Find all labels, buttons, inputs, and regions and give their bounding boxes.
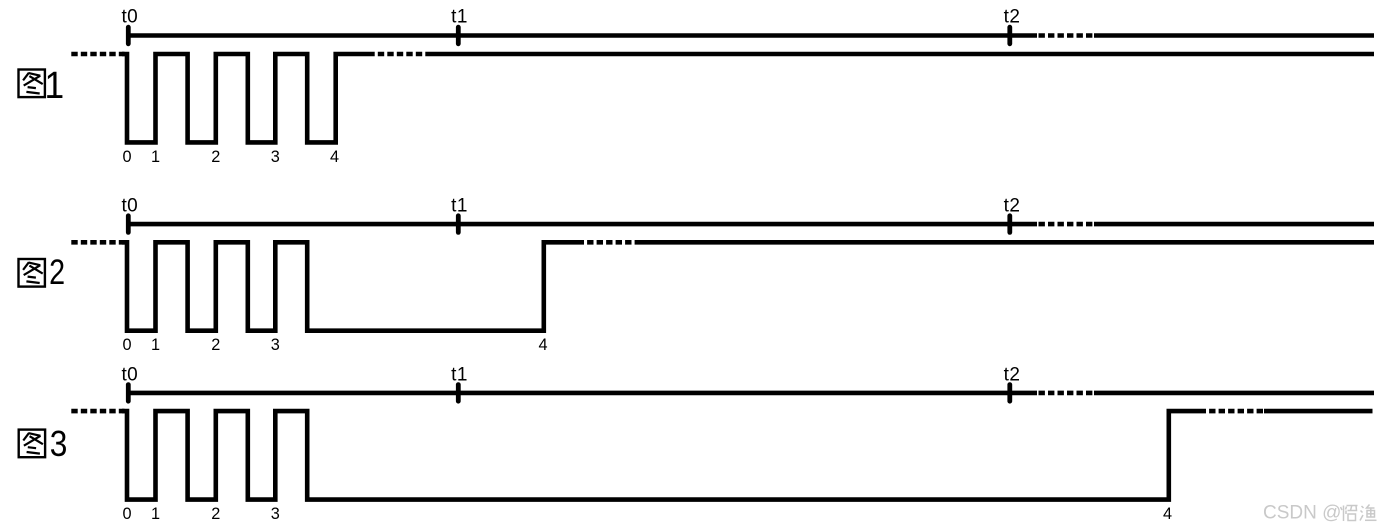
tick t1 row1	[456, 27, 461, 44]
svg-text:t0: t0	[121, 7, 138, 28]
svg-text:t1: t1	[451, 7, 468, 28]
svg-text:3: 3	[271, 336, 280, 354]
svg-text:3: 3	[271, 505, 280, 523]
svg-text:4: 4	[1163, 505, 1172, 523]
svg-text:3: 3	[271, 148, 280, 166]
svg-text:t2: t2	[1004, 365, 1021, 386]
timeline row1 solid left part	[128, 33, 1037, 38]
tick t2 row3	[1007, 385, 1012, 402]
svg-text:2: 2	[49, 252, 65, 291]
svg-text:t0: t0	[121, 196, 138, 217]
svg-text:2: 2	[211, 148, 220, 166]
svg-text:4: 4	[330, 148, 339, 166]
timeline row3 solid right part	[1094, 391, 1374, 396]
svg-text:0: 0	[122, 148, 131, 166]
svg-text:t2: t2	[1004, 196, 1021, 217]
svg-text:1: 1	[151, 336, 160, 354]
wave row1 pulse train	[122, 54, 375, 142]
svg-text:t1: t1	[451, 365, 468, 386]
watermark glyph 渔	[1360, 505, 1377, 521]
timeline row1 dashed part	[1039, 33, 1095, 38]
wave row3 dashed high segment	[1209, 409, 1264, 414]
wave row3 solid high to right edge	[1264, 409, 1373, 414]
wave row2 lead-in dashes	[71, 240, 124, 245]
svg-text:0: 0	[122, 505, 131, 523]
svg-text:4: 4	[538, 336, 547, 354]
watermark glyph 悟	[1341, 506, 1358, 522]
wave row1 solid high to right edge	[431, 52, 1374, 57]
svg-text:CSDN @: CSDN @	[1263, 503, 1341, 524]
wave row2 solid high to right edge	[640, 240, 1374, 245]
tick t0 row2	[126, 216, 131, 233]
timeline row1 solid right part	[1094, 33, 1374, 38]
tick t1 row2	[456, 216, 461, 233]
svg-text:t2: t2	[1004, 7, 1021, 28]
timeline row2 dashed part	[1039, 222, 1095, 227]
wave row1 dashed high segment	[378, 52, 431, 57]
svg-text:2: 2	[211, 336, 220, 354]
tick t2 row2	[1007, 216, 1012, 233]
svg-text:0: 0	[122, 336, 131, 354]
tick t0 row3	[126, 385, 131, 402]
label 图2	[19, 252, 66, 291]
label 图1	[19, 64, 65, 106]
wave row1 lead-in dashes	[71, 52, 124, 57]
wave row2 dashed high segment	[587, 240, 640, 245]
timeline row3 solid left part	[128, 391, 1037, 396]
label 图3	[19, 424, 68, 464]
svg-text:1: 1	[44, 64, 64, 106]
tick t2 row1	[1007, 27, 1012, 44]
svg-text:t1: t1	[451, 196, 468, 217]
wave row3 lead-in dashes	[71, 409, 124, 414]
wave row3 pulse train with very long low then rise at 4	[122, 411, 1206, 500]
tick t1 row3	[456, 385, 461, 402]
svg-text:1: 1	[151, 148, 160, 166]
svg-text:t0: t0	[121, 365, 138, 386]
svg-text:3: 3	[50, 424, 68, 464]
tick t0 row1	[126, 27, 131, 44]
timeline row2 solid right part	[1094, 222, 1374, 227]
timeline row3 dashed part	[1039, 391, 1095, 396]
svg-text:1: 1	[151, 505, 160, 523]
svg-text:2: 2	[211, 505, 220, 523]
wave row2 pulse train with long low then rise at 4	[122, 242, 584, 330]
timeline row2 solid left part	[128, 222, 1037, 227]
